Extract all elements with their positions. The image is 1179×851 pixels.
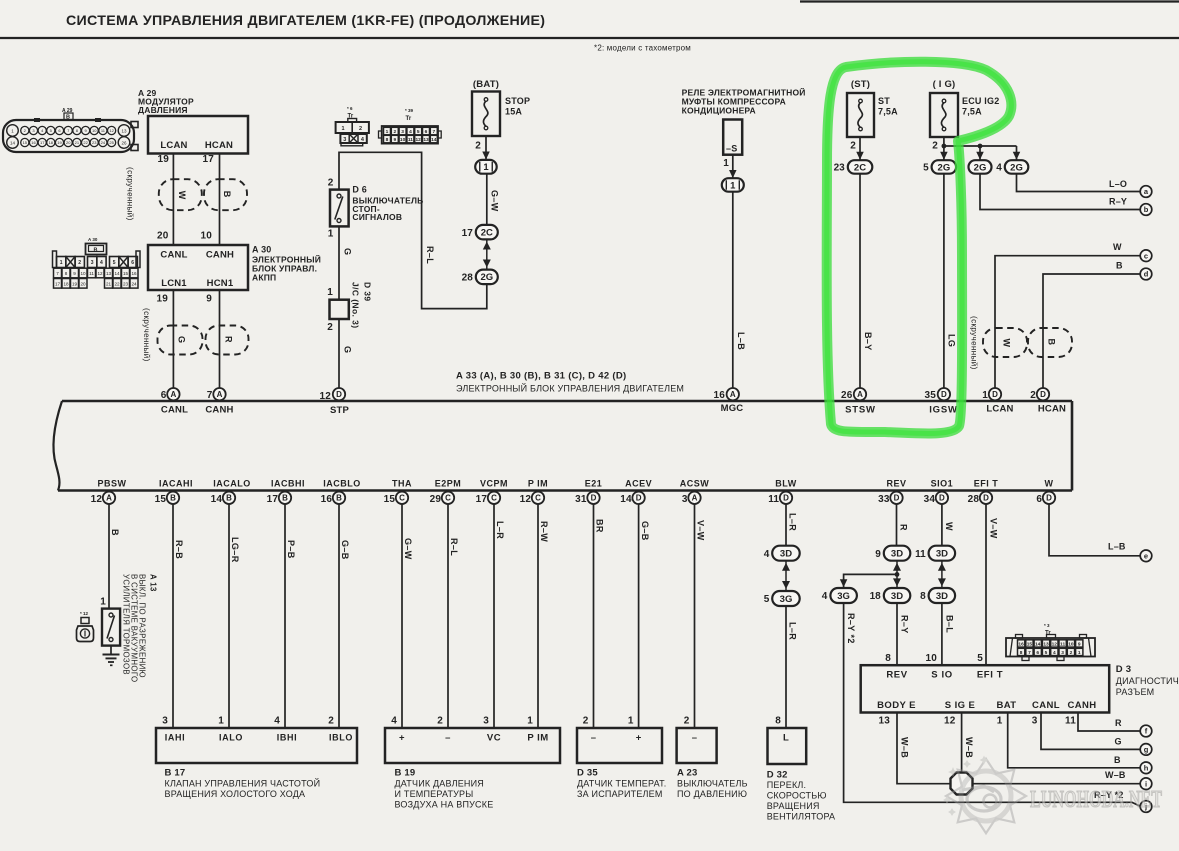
arrows between 3D SIO xyxy=(938,561,946,589)
svg-text:8: 8 xyxy=(65,271,68,276)
svg-text:G–W: G–W xyxy=(490,190,500,212)
svg-text:e: e xyxy=(1144,552,1148,561)
label twisted 3 xyxy=(970,316,979,370)
wire V-W EFIT xyxy=(986,504,999,665)
pin 3 VC B19 xyxy=(483,716,501,744)
svg-text:V–W: V–W xyxy=(696,520,706,541)
pin 3 CANL diag xyxy=(1032,716,1038,727)
wire R-L loop to stop switch xyxy=(339,152,487,308)
svg-text:28: 28 xyxy=(462,272,474,283)
svg-text:12: 12 xyxy=(944,716,956,727)
svg-text:12: 12 xyxy=(97,271,103,276)
svg-text:EFI T: EFI T xyxy=(977,670,1003,681)
pin 1 relay xyxy=(723,158,729,169)
wire L-R BLW upper xyxy=(786,504,798,546)
svg-text:A: A xyxy=(171,390,177,399)
block A29 pressure modulator xyxy=(138,88,248,154)
svg-text:10: 10 xyxy=(400,137,406,143)
svg-text:IBLO: IBLO xyxy=(329,733,353,743)
svg-text:2: 2 xyxy=(1070,650,1073,656)
svg-text:+: + xyxy=(399,733,405,744)
pin 2 fuse IG xyxy=(932,141,938,152)
svg-text:A 23: A 23 xyxy=(677,768,698,779)
svg-text:BAT: BAT xyxy=(996,700,1016,711)
svg-text:R–L: R–L xyxy=(425,246,435,264)
label D3 diagnostic xyxy=(1116,664,1179,697)
svg-text:1: 1 xyxy=(60,260,63,266)
svg-text:B: B xyxy=(170,494,176,503)
wire L-B to terminal e xyxy=(1049,504,1140,556)
svg-text:24: 24 xyxy=(131,282,137,287)
svg-text:G: G xyxy=(343,346,353,353)
svg-text:16: 16 xyxy=(1018,642,1024,648)
diagnostic connector D3 block xyxy=(861,665,1109,712)
label engine ECU xyxy=(456,371,684,394)
svg-text:E2PM: E2PM xyxy=(435,479,462,489)
svg-text:18: 18 xyxy=(49,140,54,145)
switch A13 xyxy=(102,609,120,646)
terminal a xyxy=(1140,186,1152,198)
pin 1 J/C xyxy=(327,287,333,298)
pin 3 A ACSW xyxy=(680,479,710,506)
svg-text:6: 6 xyxy=(131,260,134,266)
wire L–R from ECU pin x494 xyxy=(494,504,505,728)
svg-text:ДАТЧИК ТЕМПЕРАТ.: ДАТЧИК ТЕМПЕРАТ. xyxy=(577,779,666,789)
arrows between 2C and 2G xyxy=(483,240,491,270)
svg-text:23: 23 xyxy=(92,140,97,145)
svg-text:D 39: D 39 xyxy=(363,282,373,302)
svg-text:2: 2 xyxy=(437,716,443,727)
svg-text:CANH: CANH xyxy=(1067,700,1096,711)
svg-text:EFI T: EFI T xyxy=(974,479,999,489)
svg-text:11: 11 xyxy=(768,494,779,505)
title rule xyxy=(0,37,1179,39)
pin 2 J/C xyxy=(327,322,333,333)
svg-text:26: 26 xyxy=(841,390,853,401)
svg-text:B: B xyxy=(1047,339,1057,346)
svg-text:D: D xyxy=(992,390,998,399)
pin 2 D HCAN xyxy=(1030,388,1049,401)
twisted pair G oval xyxy=(158,326,203,355)
svg-text:VC: VC xyxy=(487,733,501,744)
svg-text:10: 10 xyxy=(925,653,937,664)
terminal c xyxy=(1140,250,1152,262)
svg-text:12: 12 xyxy=(520,494,532,505)
svg-text:11: 11 xyxy=(89,271,94,276)
svg-text:1: 1 xyxy=(341,126,344,132)
svg-text:8: 8 xyxy=(386,137,389,143)
svg-text:C: C xyxy=(535,494,541,503)
pin 29 C E2PM xyxy=(430,479,462,506)
svg-text:3G: 3G xyxy=(780,594,793,605)
branch wire to 4 3G xyxy=(840,574,897,587)
wire V–W from ECU pin x694 xyxy=(695,504,706,728)
svg-text:HCAN: HCAN xyxy=(205,140,233,151)
svg-text:D 35: D 35 xyxy=(577,768,598,779)
svg-text:11: 11 xyxy=(1065,716,1076,727)
svg-text:+: + xyxy=(636,733,642,744)
svg-text:2: 2 xyxy=(932,141,938,152)
wire W-B BODY E to ground xyxy=(897,713,951,784)
svg-text:15: 15 xyxy=(384,494,396,505)
svg-text:11: 11 xyxy=(1060,642,1065,648)
svg-text:L–R: L–R xyxy=(495,521,505,539)
ground octagon xyxy=(951,773,973,795)
twisted pair W oval xyxy=(159,179,202,210)
svg-text:SIO1: SIO1 xyxy=(931,479,954,489)
wire LG to IGSW xyxy=(944,174,956,388)
svg-text:P IM: P IM xyxy=(528,479,548,489)
svg-text:ST: ST xyxy=(878,96,890,106)
pin 4 IBHI B17 xyxy=(274,716,297,743)
svg-text:D: D xyxy=(591,494,597,503)
pin 8 diag REV xyxy=(885,653,891,664)
pin 2 fuse STOP xyxy=(475,141,481,152)
terminal j xyxy=(1140,801,1152,813)
svg-text:C: C xyxy=(491,494,497,503)
svg-text:E21: E21 xyxy=(585,479,603,489)
svg-text:20: 20 xyxy=(66,140,71,145)
svg-text:16: 16 xyxy=(321,494,333,505)
svg-text:5: 5 xyxy=(1045,650,1048,656)
connector 5 2G xyxy=(923,160,956,174)
svg-text:4: 4 xyxy=(274,716,280,727)
pin 2 fuse ST xyxy=(850,141,856,152)
svg-text:2: 2 xyxy=(393,129,396,135)
connector 4 2G xyxy=(996,160,1028,174)
pin 20 CANL xyxy=(157,231,169,242)
connector 4 3D xyxy=(764,546,800,561)
terminal i xyxy=(1140,778,1152,790)
terminal b xyxy=(1140,204,1152,216)
svg-text:P IM: P IM xyxy=(527,733,548,744)
svg-text:3: 3 xyxy=(401,129,404,135)
svg-text:14: 14 xyxy=(114,271,120,276)
svg-text:R–Y: R–Y xyxy=(900,615,910,634)
arrows between 3D and 3G BLW xyxy=(782,561,790,591)
connector drawing Tr D39 xyxy=(379,108,442,144)
fuse ECU IG2 7.5A xyxy=(930,79,999,137)
svg-text:L–B: L–B xyxy=(736,332,746,350)
svg-text:8: 8 xyxy=(775,716,781,727)
svg-text:A: A xyxy=(217,390,223,399)
svg-text:D: D xyxy=(1040,390,1046,399)
svg-text:LG: LG xyxy=(946,334,956,347)
svg-text:16: 16 xyxy=(131,271,137,276)
svg-text:3: 3 xyxy=(162,716,168,727)
block D35 evaporator temp sensor xyxy=(577,728,662,763)
svg-text:L–B: L–B xyxy=(1108,542,1126,552)
svg-text:B–Y: B–Y xyxy=(863,332,873,351)
svg-text:19: 19 xyxy=(72,282,78,287)
svg-text:1: 1 xyxy=(628,716,634,727)
pin 10 diag SIO xyxy=(925,653,937,664)
block B19 MAP-IAT sensor xyxy=(385,728,560,763)
svg-text:19: 19 xyxy=(156,294,168,305)
svg-text:19: 19 xyxy=(57,140,62,145)
wire R–B from ECU pin x173 xyxy=(173,504,184,728)
svg-text:8: 8 xyxy=(885,653,891,664)
svg-text:A: A xyxy=(857,390,863,399)
svg-text:ВЕНТИЛЯТОРА: ВЕНТИЛЯТОРА xyxy=(767,812,836,822)
svg-text:S IO: S IO xyxy=(931,670,952,681)
svg-text:УСИЛИТЕЛЯ ТОРМОЗОВ: УСИЛИТЕЛЯ ТОРМОЗОВ xyxy=(122,574,131,675)
pin 1 stop switch xyxy=(328,229,334,240)
svg-text:CANL: CANL xyxy=(161,405,188,416)
svg-text:STP: STP xyxy=(330,405,350,416)
svg-text:16: 16 xyxy=(31,140,36,145)
svg-text:G–B: G–B xyxy=(340,540,350,560)
pin 2 stop switch xyxy=(328,178,334,189)
svg-text:13: 13 xyxy=(121,128,127,133)
svg-text:B 17: B 17 xyxy=(165,768,186,779)
svg-text:VCPM: VCPM xyxy=(480,479,508,489)
svg-text:18: 18 xyxy=(870,591,882,602)
pin 16 A MGC xyxy=(713,388,739,401)
svg-text:LUNOHODA.NET: LUNOHODA.NET xyxy=(1030,787,1162,813)
fuse STOP 15A (BAT) xyxy=(472,79,530,136)
svg-text:4: 4 xyxy=(822,591,828,602)
svg-text:W: W xyxy=(1045,479,1054,489)
svg-text:B: B xyxy=(282,494,288,503)
svg-text:3D: 3D xyxy=(780,549,792,560)
svg-text:10: 10 xyxy=(80,271,86,276)
svg-text:7: 7 xyxy=(432,129,435,135)
wire R-Y *2 long run xyxy=(844,603,1141,806)
svg-text:6: 6 xyxy=(1036,650,1039,656)
label CANH ecu xyxy=(205,405,233,416)
svg-text:7: 7 xyxy=(1028,650,1031,656)
connector 2G middle xyxy=(969,160,992,174)
block B17 idle speed control valve xyxy=(156,728,357,763)
watermark text xyxy=(1030,787,1162,813)
connector 28 2G xyxy=(462,270,498,285)
connector 23 2C xyxy=(834,160,873,174)
twisted pair B oval right xyxy=(1028,328,1072,357)
pin 1 D LCAN xyxy=(982,388,1001,401)
svg-text:REV: REV xyxy=(886,479,906,489)
svg-text:2G: 2G xyxy=(938,162,951,173)
svg-text:ЭЛЕКТРОННЫЙ БЛОК УПРАВЛЕНИЯ ДВ: ЭЛЕКТРОННЫЙ БЛОК УПРАВЛЕНИЯ ДВИГАТЕЛЕМ xyxy=(456,383,684,394)
svg-text:17: 17 xyxy=(462,228,474,239)
svg-text:IACAHI: IACAHI xyxy=(159,479,193,489)
pin 10 CANH xyxy=(200,231,212,242)
svg-text:ДАТЧИК ДАВЛЕНИЯ: ДАТЧИК ДАВЛЕНИЯ xyxy=(395,779,484,789)
svg-text:И ТЕМПЕРАТУРЫ: И ТЕМПЕРАТУРЫ xyxy=(395,789,474,799)
svg-text:ECU IG2: ECU IG2 xyxy=(962,96,999,106)
svg-text:10: 10 xyxy=(200,231,212,242)
svg-text:3: 3 xyxy=(1061,650,1064,656)
wire B-L to diag SIO xyxy=(942,603,955,665)
svg-text:IACBLO: IACBLO xyxy=(323,479,361,489)
svg-text:14: 14 xyxy=(431,137,437,143)
svg-text:ЗА ИСПАРИТЕЛЕМ: ЗА ИСПАРИТЕЛЕМ xyxy=(577,789,663,799)
pin 11 CANH diag xyxy=(1065,716,1076,727)
svg-text:15: 15 xyxy=(123,271,129,276)
connector 4 3G REV branch xyxy=(822,588,857,603)
pin 1 IALO B17 xyxy=(218,716,243,743)
wire R–L from ECU pin x448 xyxy=(448,504,459,728)
svg-text:R: R xyxy=(899,524,909,531)
svg-text:A 30: A 30 xyxy=(252,245,271,255)
wire R-Y to diag REV xyxy=(897,603,910,665)
svg-text:LG–R: LG–R xyxy=(230,537,240,563)
label R-Y *2 right xyxy=(1094,790,1124,800)
title xyxy=(66,13,545,29)
svg-text:REV: REV xyxy=(886,670,907,681)
svg-text:G–W: G–W xyxy=(403,538,413,560)
svg-text:b: b xyxy=(1144,205,1149,214)
pin 1 P IM B19 xyxy=(527,716,548,744)
svg-text:B 19: B 19 xyxy=(395,768,416,779)
svg-text:7,5A: 7,5A xyxy=(878,107,898,117)
wire W to terminal c xyxy=(995,242,1140,388)
svg-text:15A: 15A xyxy=(505,107,522,117)
svg-text:G: G xyxy=(177,336,187,343)
label B19 xyxy=(395,768,494,810)
svg-text:CANL: CANL xyxy=(1032,700,1060,711)
svg-text:19: 19 xyxy=(157,154,169,165)
svg-text:12: 12 xyxy=(1052,642,1058,648)
pin 19 LCN1 xyxy=(156,294,168,305)
svg-text:STOP: STOP xyxy=(505,96,530,106)
svg-text:15: 15 xyxy=(1027,642,1033,648)
wire and branch from fuse IG xyxy=(940,137,1020,160)
svg-text:HCAN: HCAN xyxy=(1038,404,1066,415)
label D32 xyxy=(767,770,836,822)
svg-text:CANL: CANL xyxy=(160,250,187,261)
label B17 xyxy=(165,768,321,800)
svg-text:17: 17 xyxy=(40,140,45,145)
wire B to terminal d xyxy=(1043,261,1140,389)
svg-text:29: 29 xyxy=(430,494,442,505)
svg-text:* 6: * 6 xyxy=(347,106,353,111)
svg-text:C: C xyxy=(445,494,451,503)
svg-text:R–W: R–W xyxy=(539,521,549,542)
svg-text:11: 11 xyxy=(408,137,413,143)
svg-text:A: A xyxy=(692,494,698,503)
svg-text:2C: 2C xyxy=(854,162,866,173)
pin 6 A CANL xyxy=(161,388,180,401)
svg-text:MGC: MGC xyxy=(721,403,744,414)
svg-text:ВЫКЛЮЧАТЕЛЬ: ВЫКЛЮЧАТЕЛЬ xyxy=(677,779,748,789)
ECU engine control block xyxy=(54,401,1072,491)
svg-text:20: 20 xyxy=(80,282,86,287)
svg-text:2: 2 xyxy=(475,141,481,152)
svg-text:IAHI: IAHI xyxy=(165,733,185,743)
svg-text:STSW: STSW xyxy=(845,405,876,416)
svg-text:D: D xyxy=(941,390,947,399)
svg-text:3D: 3D xyxy=(936,549,948,560)
pin 2 IBLO B17 xyxy=(328,716,353,743)
svg-text:IACALO: IACALO xyxy=(213,479,251,489)
pin 8 D32 xyxy=(775,716,789,744)
connector 17 2C xyxy=(462,225,498,240)
wire HCN1 to ECU xyxy=(219,290,221,388)
label HCAN ecu xyxy=(1038,404,1066,415)
svg-text:D: D xyxy=(939,494,945,503)
svg-text:4: 4 xyxy=(1053,650,1056,656)
pin 12 D STP xyxy=(319,388,345,402)
svg-text:5: 5 xyxy=(113,260,116,266)
svg-text:2G: 2G xyxy=(480,272,493,283)
label AC compressor clutch relay xyxy=(682,87,806,116)
svg-text:9: 9 xyxy=(1078,642,1081,648)
pin 2 A23 xyxy=(684,716,698,744)
connector icon A13 xyxy=(77,611,94,642)
wire W SIO xyxy=(942,504,954,546)
svg-text:1: 1 xyxy=(730,180,736,191)
svg-text:*2: модели с тахометром: *2: модели с тахометром xyxy=(594,44,691,53)
svg-text:B: B xyxy=(94,248,98,254)
svg-text:3G: 3G xyxy=(837,591,850,602)
svg-text:8: 8 xyxy=(1020,650,1023,656)
svg-text:L: L xyxy=(783,733,789,744)
block A30 AT control ECU xyxy=(148,245,321,291)
svg-text:5: 5 xyxy=(417,129,420,135)
page top edge line xyxy=(800,0,1179,2)
pin 28 D EFI T xyxy=(968,479,999,506)
svg-text:A 30: A 30 xyxy=(88,237,98,242)
svg-text:СИГНАЛОВ: СИГНАЛОВ xyxy=(352,212,402,222)
svg-text:2: 2 xyxy=(327,322,333,333)
svg-text:2: 2 xyxy=(583,716,589,727)
wire B BAT to terminal h xyxy=(1008,713,1141,768)
pin 4 + B19 xyxy=(391,716,405,744)
connector 9 3D xyxy=(875,546,910,561)
svg-text:20: 20 xyxy=(157,231,169,242)
svg-text:КЛАПАН УПРАВЛЕНИЯ ЧАСТОТОЙ: КЛАПАН УПРАВЛЕНИЯ ЧАСТОТОЙ xyxy=(165,778,321,789)
wire W-B SIG E to ground xyxy=(962,713,974,774)
wire P–B from ECU pin x285 xyxy=(285,504,296,728)
svg-text:17: 17 xyxy=(476,494,488,505)
svg-text:( I G): ( I G) xyxy=(933,79,956,90)
svg-text:21: 21 xyxy=(106,282,112,287)
svg-text:(BAT): (BAT) xyxy=(473,79,499,90)
svg-text:–: – xyxy=(445,733,451,744)
svg-text:R: R xyxy=(224,336,234,343)
twisted pair R oval xyxy=(206,326,249,355)
svg-text:КОНДИЦИОНЕРА: КОНДИЦИОНЕРА xyxy=(682,106,756,116)
svg-text:h: h xyxy=(1144,764,1149,773)
svg-text:W: W xyxy=(1002,339,1012,348)
svg-text:2: 2 xyxy=(359,126,362,132)
svg-text:2: 2 xyxy=(328,178,334,189)
svg-text:7: 7 xyxy=(56,271,59,276)
svg-text:1: 1 xyxy=(328,229,334,240)
svg-text:B: B xyxy=(1116,261,1123,271)
twisted pair B oval xyxy=(204,179,247,210)
pin 15 C THA xyxy=(384,479,412,506)
wire G CANL to terminal g xyxy=(1041,713,1140,750)
svg-text:23: 23 xyxy=(834,163,846,174)
svg-text:D: D xyxy=(983,494,989,503)
svg-text:P–B: P–B xyxy=(286,540,296,559)
wire B-Y to STSW xyxy=(860,174,873,388)
svg-text:1: 1 xyxy=(982,390,988,401)
svg-text:CANH: CANH xyxy=(206,250,234,261)
svg-text:14: 14 xyxy=(10,140,16,145)
connector 11 3D xyxy=(915,546,955,561)
svg-text:R–Y: R–Y xyxy=(1109,197,1127,207)
svg-text:ВРАЩЕНИЯ ХОЛОСТОГО ХОДА: ВРАЩЕНИЯ ХОЛОСТОГО ХОДА xyxy=(165,789,306,799)
svg-text:D: D xyxy=(1046,494,1052,503)
svg-text:A 33 (A), B 30 (B), B 31: A 33 (A), B 30 (B), B 31 (C), D 42 (D) xyxy=(456,371,626,382)
pin 1 + D35 xyxy=(628,716,642,744)
svg-text:1: 1 xyxy=(327,287,333,298)
svg-text:g: g xyxy=(1144,745,1149,754)
wire G–W from ECU pin x402 xyxy=(402,504,413,728)
